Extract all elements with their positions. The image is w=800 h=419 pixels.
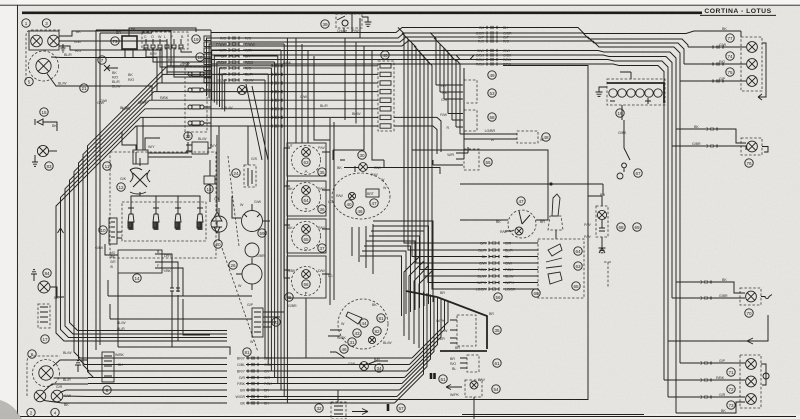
wire rows B fuse area to connector column xyxy=(211,66,378,126)
up arrow on bundle xyxy=(58,228,64,238)
wire long bottom run xyxy=(462,414,644,416)
gauge T temperature xyxy=(292,183,321,213)
circled 65 xyxy=(302,235,310,243)
wire vertical gen left xyxy=(108,273,118,347)
battery feed top xyxy=(620,72,631,79)
circled 46 xyxy=(340,345,348,353)
wires gauge feeds left bus xyxy=(284,148,290,278)
wire bundle top main harness to rear xyxy=(211,28,694,414)
wire relay top xyxy=(129,28,140,36)
battery dashed case xyxy=(607,79,665,105)
wire gen drops to bottom rows xyxy=(172,291,210,347)
battery cells xyxy=(609,89,662,97)
circled 61 xyxy=(493,359,501,367)
circled 65 xyxy=(572,282,580,290)
circled 21 xyxy=(80,84,88,92)
gauge A ammeter xyxy=(292,146,321,175)
circled 32 xyxy=(315,404,323,412)
wire washer to rows xyxy=(218,196,220,241)
panel lamp 30 xyxy=(359,163,368,172)
fuse 3 xyxy=(188,105,204,109)
wire pair right of gauges xyxy=(330,118,334,305)
circled 67 xyxy=(634,169,642,177)
scan edge line bottom xyxy=(20,416,796,418)
ground battery xyxy=(596,87,608,96)
dashed body line wiper area xyxy=(228,156,239,246)
circled 54 xyxy=(492,385,500,393)
circled 3 xyxy=(42,19,50,27)
wire BL/W from main beam xyxy=(47,74,86,87)
thick wire BR upper xyxy=(406,291,437,297)
circled 26 xyxy=(229,261,237,269)
circled 11 xyxy=(103,162,111,170)
ignition coil 11 xyxy=(130,145,148,164)
ignition switch 19 xyxy=(142,32,188,49)
wire drops from main harness to dash connectors xyxy=(430,33,456,128)
ground below 83 xyxy=(32,155,38,166)
junction block cells upper rows xyxy=(204,36,211,83)
inner box verticals xyxy=(96,30,211,350)
circled 18 xyxy=(196,53,204,61)
nested corner wires centre xyxy=(404,256,432,348)
gauge F fuel xyxy=(292,267,321,297)
fuel pump box 32 xyxy=(331,402,346,419)
wire G/W xyxy=(59,40,86,42)
wire R/O xyxy=(59,46,86,50)
circled 31 xyxy=(348,338,356,346)
circled 63 xyxy=(302,158,310,166)
main interior boundary box bottom/right xyxy=(250,262,588,400)
circled 44 xyxy=(360,319,368,327)
circled 63 xyxy=(574,262,582,270)
wire lamp2 bottom xyxy=(44,401,88,404)
motor brush plate xyxy=(245,243,259,257)
dip switch symbol xyxy=(104,65,118,71)
map light unit 54 xyxy=(465,380,482,397)
circled 14 xyxy=(133,274,141,282)
circled 1 xyxy=(22,19,30,27)
choke switch 39 xyxy=(336,14,362,28)
circled 64 xyxy=(302,196,310,204)
main beam lamp xyxy=(29,51,59,81)
ground lighter xyxy=(599,237,606,253)
circled 51 xyxy=(439,375,447,383)
connector symbols control head rows xyxy=(489,241,499,290)
gen connector pair xyxy=(170,288,180,292)
circled 76 xyxy=(745,159,753,167)
unit 13 drop xyxy=(209,160,211,202)
wire clock lamp feed xyxy=(505,230,514,231)
interior box top edge to right border xyxy=(503,66,588,185)
wire staircase rows up to column connectors xyxy=(395,292,449,404)
wire drops to control head rows xyxy=(398,28,456,290)
wire BL/R xyxy=(51,56,86,59)
connector symbols license xyxy=(701,280,711,299)
control head assembly xyxy=(538,239,584,298)
ignition key wedge xyxy=(346,312,362,324)
circled 12 xyxy=(117,183,125,191)
wire BK from headlamps xyxy=(59,31,86,36)
rear lamp cluster bottom-right xyxy=(740,355,761,408)
connector symbols upper rows xyxy=(229,36,239,81)
flasher pins xyxy=(450,320,457,343)
circled 35 xyxy=(318,168,326,176)
tail main lamp 6 xyxy=(33,360,60,387)
lamp 2 xyxy=(34,390,46,402)
circled 83 xyxy=(45,162,53,170)
wire speedo drops xyxy=(352,224,373,274)
connector column 40 xyxy=(378,61,394,131)
lamp 71 xyxy=(746,359,757,370)
lamp 77 xyxy=(747,42,758,53)
connector 49 xyxy=(464,80,477,103)
ignition switch pin feet xyxy=(144,45,183,48)
wire bundle centre vertical harness xyxy=(265,38,287,403)
circled 80 xyxy=(356,207,364,215)
circled 43 xyxy=(353,329,361,337)
wire gen to connector10 xyxy=(105,232,122,255)
circled 34 xyxy=(375,364,383,372)
circled 66 xyxy=(302,280,310,288)
wire BR drop to lighter xyxy=(588,184,603,196)
circled 79 xyxy=(111,37,119,45)
circled 19 xyxy=(192,35,200,43)
wire clock left xyxy=(460,219,508,221)
handbrake lever xyxy=(548,194,563,239)
junction dot xyxy=(549,182,552,185)
license terminal xyxy=(761,295,772,299)
connector 10 xyxy=(109,218,117,244)
circled 17 xyxy=(41,335,49,343)
unit 13 xyxy=(204,176,215,184)
circled 5 xyxy=(25,77,33,85)
battery terminals xyxy=(610,98,651,104)
wire door switch feed xyxy=(622,105,624,136)
lamp 74 xyxy=(747,59,758,70)
circled 37 xyxy=(318,244,326,252)
circled 35 flasher xyxy=(493,326,501,334)
wire gen outputs right xyxy=(163,254,183,296)
circled 40b xyxy=(381,51,389,59)
circled 13 xyxy=(205,185,213,193)
tail lamp cluster housing bottom-left xyxy=(27,356,60,396)
circled 40 xyxy=(345,200,353,208)
wiper motor feed wires xyxy=(232,196,270,290)
wires gauge feeds right xyxy=(322,152,330,274)
indicator lamp 34 xyxy=(360,362,369,371)
circled 4 xyxy=(51,408,59,416)
horn symbol xyxy=(35,119,48,125)
inline fuse 51b xyxy=(433,373,436,379)
washer pump xyxy=(211,208,227,232)
wire lamp4 bk xyxy=(63,395,88,398)
wires feeds top cluster xyxy=(680,31,746,81)
wire 54 down to bottom xyxy=(473,397,475,419)
wire parcel shelf run xyxy=(460,184,588,262)
wire coil feeds xyxy=(148,130,211,157)
wire bundle left vertical harness with long fan xyxy=(56,66,227,378)
circled 23 xyxy=(272,318,280,326)
connector stack 8 xyxy=(102,352,114,382)
circled 6 xyxy=(28,350,36,358)
circled 22 xyxy=(184,132,192,140)
circled 2 xyxy=(27,408,35,416)
heater resistor 24 xyxy=(244,165,256,187)
fuse 1 xyxy=(188,72,204,76)
wire stubs right of 23 xyxy=(263,312,284,327)
circled 15 xyxy=(40,108,48,116)
wire rows gen area right xyxy=(118,346,165,348)
lamp 76 xyxy=(747,141,758,152)
circled 75 xyxy=(726,68,734,76)
wire resistor feed xyxy=(247,126,249,165)
connector 58 xyxy=(464,110,477,131)
wire drops centre upper xyxy=(333,38,384,160)
wire lamp30 xyxy=(344,168,440,175)
battery solid frame xyxy=(607,83,664,103)
circled 39 xyxy=(321,20,329,28)
76 earth bracket xyxy=(762,147,768,153)
boot arrow xyxy=(668,315,768,344)
generator terminals xyxy=(155,254,163,268)
wires license feeds xyxy=(672,282,745,298)
connector 61 pins xyxy=(460,358,467,368)
wire diode feed xyxy=(216,135,218,202)
circled 82 xyxy=(373,327,381,335)
circled 16 xyxy=(616,109,624,117)
wires bottom cluster feeds xyxy=(664,363,745,413)
connector symbols rows B xyxy=(272,64,282,127)
connector symbols bottom cluster xyxy=(701,361,711,398)
circled 59 xyxy=(258,229,266,237)
circled 24 xyxy=(232,169,240,177)
distributor 12 xyxy=(130,152,150,194)
reverse lamp 76 xyxy=(741,138,762,155)
fuse 4 xyxy=(188,121,204,125)
wire choke down xyxy=(343,28,345,33)
wires into column from rows xyxy=(328,330,345,358)
thick wire BR diagonal xyxy=(437,297,487,349)
lamp 75 xyxy=(747,76,758,87)
circled 77 xyxy=(726,34,734,42)
wire 6 lamp lower xyxy=(54,377,89,379)
circled 81 rows xyxy=(243,348,251,356)
spark plug 2 xyxy=(153,208,159,228)
ground at headlamp xyxy=(61,44,66,52)
wire lamp2 xyxy=(44,384,88,391)
headlamp row elbows into fan xyxy=(86,31,171,100)
scan edge line left xyxy=(17,5,19,414)
rows to connector 23 xyxy=(108,296,252,355)
speedometer xyxy=(332,173,390,219)
wire dist to plugs xyxy=(139,192,141,196)
connector 48 xyxy=(517,131,538,143)
wire washer pump feed from rows xyxy=(218,126,220,196)
heater motor 26 xyxy=(242,258,262,284)
top border rule xyxy=(22,12,702,15)
lamp 70 xyxy=(746,291,757,302)
connector 55 xyxy=(464,149,479,170)
generator 14 box xyxy=(118,250,162,273)
wire gauge F to bottom rows xyxy=(305,298,307,358)
wire rows upper connector group xyxy=(207,38,288,111)
engine bay dashed boundary xyxy=(110,152,216,258)
spark plug 3 xyxy=(175,208,181,228)
spark plug 1 xyxy=(128,208,134,228)
wire lamp4 to row xyxy=(61,390,88,392)
headlamp L1 xyxy=(31,35,43,47)
steering column switch assembly xyxy=(338,299,388,349)
circled 8 xyxy=(103,386,111,394)
wire headlamp lead to relay xyxy=(121,36,123,41)
wire pump drop xyxy=(337,390,339,402)
circled 20 xyxy=(214,240,222,248)
circled 30 xyxy=(358,151,366,159)
title underline xyxy=(700,14,776,16)
thick wire BR horizontal xyxy=(440,350,487,352)
circled 71 xyxy=(727,368,735,376)
connector symbols main harness rows xyxy=(487,26,497,66)
wire lamp 83 to bundle xyxy=(49,150,57,152)
circled 66 xyxy=(532,289,540,297)
circled 45 xyxy=(285,293,293,301)
jog G/BK line xyxy=(470,55,474,60)
spark plug loom box xyxy=(122,202,206,241)
wire speedo feeds top xyxy=(340,160,355,172)
control head connector rows xyxy=(456,243,538,289)
instrument panel gauge boxes xyxy=(287,143,326,298)
lamp 4 xyxy=(51,390,63,402)
circled 7 dip switch xyxy=(98,56,106,64)
circled 69 left xyxy=(633,223,641,231)
wire 34 xyxy=(369,361,389,364)
rear lamp cluster top-right xyxy=(741,37,762,91)
diode 20 xyxy=(212,202,222,233)
dashed body line diagonal xyxy=(222,248,258,352)
ground choke xyxy=(362,17,372,26)
circled 47 xyxy=(517,197,525,205)
ground near 6 xyxy=(75,361,81,372)
wire BR from clock up xyxy=(412,150,548,198)
circled 57 xyxy=(397,404,405,412)
column lamp xyxy=(368,336,375,343)
plug leads xyxy=(131,192,200,208)
interior lamp small xyxy=(237,85,246,94)
gauge O oil xyxy=(292,222,321,252)
ground above 84 xyxy=(31,270,37,281)
circled 64 xyxy=(574,247,582,255)
license plate lamp xyxy=(740,288,761,305)
arrow right bottom xyxy=(352,409,368,415)
ignition relay 79 xyxy=(122,36,137,58)
page corner shadow bottom-left xyxy=(0,400,22,419)
wire 6 lamp to rows xyxy=(53,360,88,366)
inline fuse 57 xyxy=(387,404,390,411)
side lamp 83 xyxy=(37,145,48,156)
spark plug bodies filled xyxy=(129,222,203,230)
flasher lamp 84 xyxy=(38,281,50,293)
circled 42 xyxy=(370,199,378,207)
lamp 72 xyxy=(746,376,757,387)
circled 84 xyxy=(43,269,51,277)
wire horn to bundle xyxy=(48,122,57,131)
circled 73 xyxy=(727,401,735,409)
clock 47 xyxy=(508,210,536,238)
arrow feed 54 xyxy=(446,385,462,390)
cigar lighter 68 xyxy=(596,206,608,237)
wire 84 to bundle xyxy=(50,287,64,297)
circled 56 xyxy=(494,293,502,301)
wire drops centre to instruments xyxy=(296,38,330,143)
lamp 73 xyxy=(746,394,757,405)
spark plug 4 xyxy=(197,208,203,228)
scan edge line top xyxy=(0,4,800,6)
horn 22 xyxy=(186,142,208,154)
cluster earth bracket xyxy=(758,43,766,100)
connector symbols 76 xyxy=(707,127,717,147)
connector 61 xyxy=(467,355,479,372)
wire fusebox right bus xyxy=(210,30,212,130)
connector 23 stack xyxy=(252,308,263,337)
circled 74 xyxy=(726,52,734,60)
circled 81 xyxy=(377,314,385,322)
connector marks top cluster feeds xyxy=(713,45,723,82)
wire clock right xyxy=(536,198,548,220)
staircase instruments to column xyxy=(360,221,433,316)
connector symbols bottom rows xyxy=(248,356,258,404)
extra verticals top centre xyxy=(352,14,360,38)
flasher unit box xyxy=(457,315,476,346)
connector 17 xyxy=(38,304,50,328)
interior light feed dashes xyxy=(604,262,612,288)
wire long runs mid height xyxy=(394,117,441,154)
headlamp L2 xyxy=(48,35,60,47)
wire diagonal pair to lower left xyxy=(246,84,268,160)
wire speedo PW feeds xyxy=(333,150,384,168)
headlamp housing box top-left xyxy=(26,30,62,80)
wires ignition switch legs down xyxy=(146,49,211,77)
wire lighter feed xyxy=(588,196,602,206)
inline fuse 51 xyxy=(430,373,433,379)
wire coil down from fuse rows xyxy=(122,132,160,146)
fuse 2 xyxy=(188,88,204,92)
door switch 67 xyxy=(617,131,630,179)
circled 36 xyxy=(318,205,326,213)
fuse box xyxy=(185,66,207,132)
wire rows bottom-left to centre with connectors xyxy=(88,358,412,403)
circled 70 xyxy=(745,309,753,317)
wiper motor 59 xyxy=(242,211,263,232)
wires 76 feeds xyxy=(672,129,746,150)
wire switch feed xyxy=(140,28,196,32)
circled 68 xyxy=(617,223,625,231)
coil feeds up to rows B xyxy=(137,117,143,150)
circled 10 xyxy=(99,226,107,234)
bottom cluster earth xyxy=(761,364,769,385)
circled 72 xyxy=(727,385,735,393)
wire fuse links right xyxy=(188,62,211,138)
